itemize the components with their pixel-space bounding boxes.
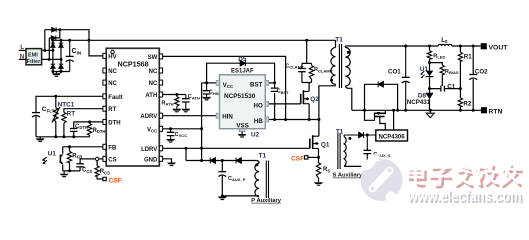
svg-text:VOUT: VOUT (489, 45, 509, 52)
ground U1 emitter (60, 171, 69, 177)
diode bridge leg1 top (51, 43, 55, 47)
svg-text:RT: RT (108, 107, 116, 113)
T1 core (339, 44, 341, 88)
svg-text:NC: NC (149, 69, 158, 75)
NCP1568 pin labels (108, 54, 158, 163)
wire RCS to CSF pad (97, 161, 103, 180)
wire S-aux top (344, 134, 376, 136)
svg-text:ATH: ATH (145, 93, 157, 99)
wire ATH pin (163, 94, 186, 96)
svg-text:www.elecfans.com: www.elecfans.com (407, 188, 522, 205)
T1 secondary winding (345, 46, 351, 110)
capacitor CFLT (32, 113, 40, 117)
svg-text:Q2: Q2 (310, 96, 319, 103)
svg-text:RTN: RTN (489, 109, 503, 116)
svg-text:Fault: Fault (108, 95, 122, 101)
node CS open circle (95, 157, 98, 160)
shunt regulator D8 NCP431 (426, 93, 433, 99)
T1 primary winding (331, 40, 336, 86)
svg-text:RDTH: RDTH (93, 128, 106, 134)
resistor RDTH (87, 124, 91, 136)
wire to VOUT (452, 45, 481, 47)
wire HO to Q2 gate (268, 103, 300, 105)
wire RS stubs (318, 157, 320, 182)
svg-text:RATH: RATH (162, 100, 174, 106)
junction dots output (404, 45, 475, 91)
wire U1 emitter to ground rail (62, 164, 64, 171)
capacitor CVCC (167, 129, 175, 139)
capacitor CCLAMP (298, 69, 306, 72)
capacitor CATH (182, 95, 190, 109)
wire L input (19, 49, 26, 51)
diode D-N startup (51, 36, 55, 41)
svg-text:CCS: CCS (82, 168, 92, 174)
capacitor CDTH (70, 129, 78, 132)
wire RT bottom stub (63, 123, 65, 137)
svg-text:HB: HB (254, 118, 263, 125)
resistor RBIAS (440, 65, 444, 75)
svg-text:LDRV: LDRV (141, 147, 157, 153)
svg-text:VCC: VCC (147, 127, 158, 133)
wire vertical N to second diode rail (48, 38, 50, 60)
wire FB net (63, 146, 103, 148)
wire SR bypass box (365, 84, 398, 110)
diode D5 (240, 60, 245, 66)
wire opto bottom rail (63, 167, 80, 171)
svg-text:GND: GND (144, 157, 158, 163)
svg-text:RCLAMP: RCLAMP (314, 67, 333, 73)
ground RATH (172, 109, 181, 113)
svg-text:CS: CS (108, 157, 116, 163)
wire VCC pin (163, 128, 202, 130)
wire DTH pin (74, 122, 103, 128)
svg-text:CSF: CSF (109, 177, 122, 184)
wire CCLAMP stubs (301, 63, 303, 82)
LED U1 (421, 71, 434, 79)
wire RTN rail (352, 109, 481, 111)
capacitor CBST (271, 83, 279, 92)
wire Q1 source (318, 149, 320, 158)
svg-text:U2: U2 (251, 131, 260, 138)
sync controller NCP4306 (376, 130, 408, 141)
junction dots P-aux (200, 159, 224, 197)
svg-text:NCP51530: NCP51530 (224, 93, 256, 100)
wire GND pin (163, 159, 172, 163)
EMI filter box (26, 49, 42, 65)
svg-text:ES1JAF: ES1JAF (231, 68, 254, 74)
watermark logo elecfans (361, 155, 403, 203)
svg-text:CO1: CO1 (388, 69, 401, 76)
transformer T1 P-auxiliary (255, 161, 269, 199)
diode bridge leg1 bottom (51, 64, 55, 68)
wire secondary top rail (345, 45, 438, 47)
svg-text:U1: U1 (48, 151, 57, 158)
svg-text:EMI: EMI (28, 52, 38, 58)
ground GND pin (167, 163, 176, 167)
svg-text:S Auxiliary: S Auxiliary (333, 173, 364, 179)
wire bridge leg1 (52, 40, 54, 71)
wire bridge bottom (53, 71, 70, 73)
svg-text:HV: HV (108, 54, 116, 60)
wire NCP4306 to RTN (393, 110, 395, 130)
svg-text:T1: T1 (336, 128, 344, 135)
wire CO2 (472, 46, 474, 110)
capacitor CIN (66, 40, 74, 71)
wire CDTH bottom stub (73, 132, 75, 137)
wire CBST vertical to HB (274, 93, 276, 119)
ground NCP431 earth (426, 113, 434, 118)
svg-text:BST: BST (250, 81, 263, 88)
svg-text:NCP431: NCP431 (407, 99, 431, 106)
ground VSS (238, 132, 247, 138)
wire P-aux net (186, 148, 257, 196)
phase dot S-aux (348, 137, 351, 140)
transistor Q1 (310, 135, 319, 149)
svg-text:Filter: Filter (27, 59, 41, 65)
phase dot P-aux (255, 163, 258, 166)
diode P-aux 1 (210, 158, 215, 164)
svg-text:RS: RS (323, 167, 330, 173)
ground left bias rail (36, 137, 45, 142)
svg-text:HIN: HIN (222, 114, 233, 121)
ground CVCC (166, 139, 175, 143)
svg-text:U1: U1 (420, 66, 429, 73)
capacitor CO2 (469, 75, 477, 80)
terminal VOUT (481, 43, 509, 51)
wire clamp bottom join (302, 83, 312, 92)
svg-text:R1: R1 (464, 53, 472, 60)
ground S-aux (363, 166, 372, 171)
inductor L0 (438, 44, 452, 46)
svg-text:R2: R2 (463, 101, 471, 108)
driver IC NCP51530 U2 (216, 75, 268, 132)
svg-text:T1: T1 (259, 153, 267, 160)
wire SR source loop (365, 110, 375, 120)
svg-text:C1: C1 (447, 83, 455, 90)
capacitor C1 (441, 86, 445, 92)
wire CSF pad to Q1 source (308, 156, 319, 158)
wire left bias ground rail (36, 116, 90, 137)
svg-text:NC: NC (108, 81, 117, 87)
junction dots secondary (363, 109, 475, 137)
wire bridge leg2 (60, 40, 62, 71)
wire RFB stubs (69, 147, 71, 171)
svg-text:D5: D5 (238, 56, 247, 63)
junction dots mid section (169, 39, 320, 159)
wire RT pin (64, 109, 103, 113)
svg-text:NCP4306: NCP4306 (379, 134, 406, 140)
resistor RT (62, 112, 66, 123)
wire Q2 source to switch node (308, 104, 310, 120)
svg-text:NCP1568: NCP1568 (118, 60, 149, 69)
capacitor CCS (76, 164, 84, 167)
junction dots left bias (54, 95, 91, 173)
op IC NCP1568 U3 body (106, 48, 159, 166)
wire SR drain stub (384, 110, 386, 113)
resistor R2 (458, 98, 462, 107)
svg-text:CVCC: CVCC (175, 132, 188, 138)
diode bridge leg2 bottom (59, 64, 63, 68)
wire VCC rail vertical (201, 83, 203, 161)
svg-text:CSF: CSF (291, 155, 304, 162)
transformer T1 main (331, 40, 352, 110)
svg-text:FB: FB (108, 145, 117, 151)
diode bridge leg2 top (59, 43, 63, 47)
svg-text:CBST: CBST (277, 89, 290, 95)
wire rail B2 (49, 30, 60, 38)
watermark text chinese (411, 167, 522, 187)
svg-text:P Auxiliary: P Auxiliary (251, 198, 281, 204)
terminal RTN (481, 107, 503, 115)
wire CS net (80, 159, 103, 164)
wire Fault net (36, 96, 103, 112)
NCP1568 left pin boxes (103, 53, 106, 161)
wire U1 collector (62, 147, 64, 154)
resistor R1 (458, 52, 462, 61)
capacitor CO1 (402, 46, 410, 110)
wire main HV rail (52, 39, 336, 41)
svg-text:ADRV: ADRV (140, 114, 157, 120)
resistor RFB (67, 151, 71, 162)
wire RCLAMP stubs (311, 63, 313, 82)
wire L out to bridge (42, 49, 53, 51)
NCP1568 right pin boxes (159, 54, 162, 161)
svg-text:CO2: CO2 (475, 68, 488, 75)
diode D-L startup (52, 27, 56, 32)
resistor RCS (95, 166, 99, 176)
wire top rail A (45, 30, 89, 41)
thermistor NTC1 (52, 107, 60, 123)
wire D5 loop (207, 63, 275, 83)
svg-text:RBIAS: RBIAS (445, 69, 459, 75)
pad CSF left (103, 177, 106, 180)
wire N out to bridge (42, 58, 61, 60)
diode P-aux 2 (236, 158, 241, 164)
transistor Q2 (301, 90, 309, 104)
capacitor CHSD (203, 83, 211, 97)
phase dot T1 secondary (347, 51, 350, 54)
transformer T1 S-auxiliary (338, 133, 367, 169)
wire C1 row (430, 88, 461, 90)
wire primary bottom to Q1 drain (319, 86, 336, 136)
svg-text:DTH: DTH (108, 120, 120, 126)
svg-text:RLED: RLED (433, 53, 445, 59)
svg-text:CATH: CATH (188, 94, 200, 100)
svg-text:HO: HO (254, 102, 263, 109)
wire RBIAS branch (430, 63, 443, 86)
svg-text:RFB: RFB (72, 153, 82, 159)
ground CHSD (202, 97, 211, 101)
wire RDTH stubs (89, 122, 91, 137)
wire SR gate (380, 117, 386, 131)
svg-text:RCS: RCS (100, 169, 110, 175)
wire N input (19, 58, 26, 60)
wire vertical L to top diode rail (44, 30, 46, 51)
optocoupler U1 transistor (43, 155, 63, 164)
wire NCP431 to RTN (429, 99, 432, 113)
svg-text:VSS: VSS (236, 122, 248, 129)
ground RS (314, 182, 323, 186)
wire SW net (163, 56, 286, 119)
capacitor CAUXP (219, 172, 227, 177)
ground bridge (52, 72, 61, 77)
wire VCC to U2 (202, 82, 217, 84)
ground CAUXP (218, 197, 227, 201)
svg-text:T1: T1 (335, 37, 343, 44)
svg-text:RT: RT (67, 110, 76, 117)
wire R1 R2 divider (459, 46, 461, 110)
svg-text:NC: NC (149, 81, 158, 87)
wire RLED chain (429, 46, 431, 93)
junction dots input section (43, 28, 90, 73)
svg-text:CCLAMP: CCLAMP (285, 63, 304, 69)
diode SR bypass (378, 81, 383, 87)
wire clamp top drop (302, 40, 312, 63)
wire BST pin (268, 82, 274, 84)
pad CSF right (305, 156, 308, 159)
svg-text:Q1: Q1 (321, 141, 330, 148)
wire HV pin feed (89, 40, 103, 56)
svg-text:NC: NC (108, 69, 117, 75)
svg-text:SW: SW (148, 55, 158, 61)
svg-text:NTC1: NTC1 (58, 102, 75, 109)
wire HB switch node rail (268, 119, 319, 121)
resistor RS (316, 163, 320, 178)
transistor SR MOSFET (374, 112, 386, 116)
phase dot T1 primary (330, 79, 333, 82)
wire LDRV to Q1 gate (163, 147, 310, 149)
svg-text:L: L (20, 44, 24, 51)
svg-text:N: N (20, 53, 25, 60)
ground CATH (181, 109, 190, 113)
capacitor CAUXS (364, 135, 372, 166)
wire NTC1 stub (55, 96, 57, 137)
resistor RLED (427, 51, 431, 60)
svg-text:CAUX_P: CAUX_P (228, 176, 246, 182)
diode S-aux (359, 132, 364, 138)
svg-text:CDTH: CDTH (75, 124, 88, 130)
resistor RATH (175, 95, 179, 109)
resistor RCLAMP (309, 66, 313, 80)
wire ADRV to HIN (163, 115, 217, 117)
